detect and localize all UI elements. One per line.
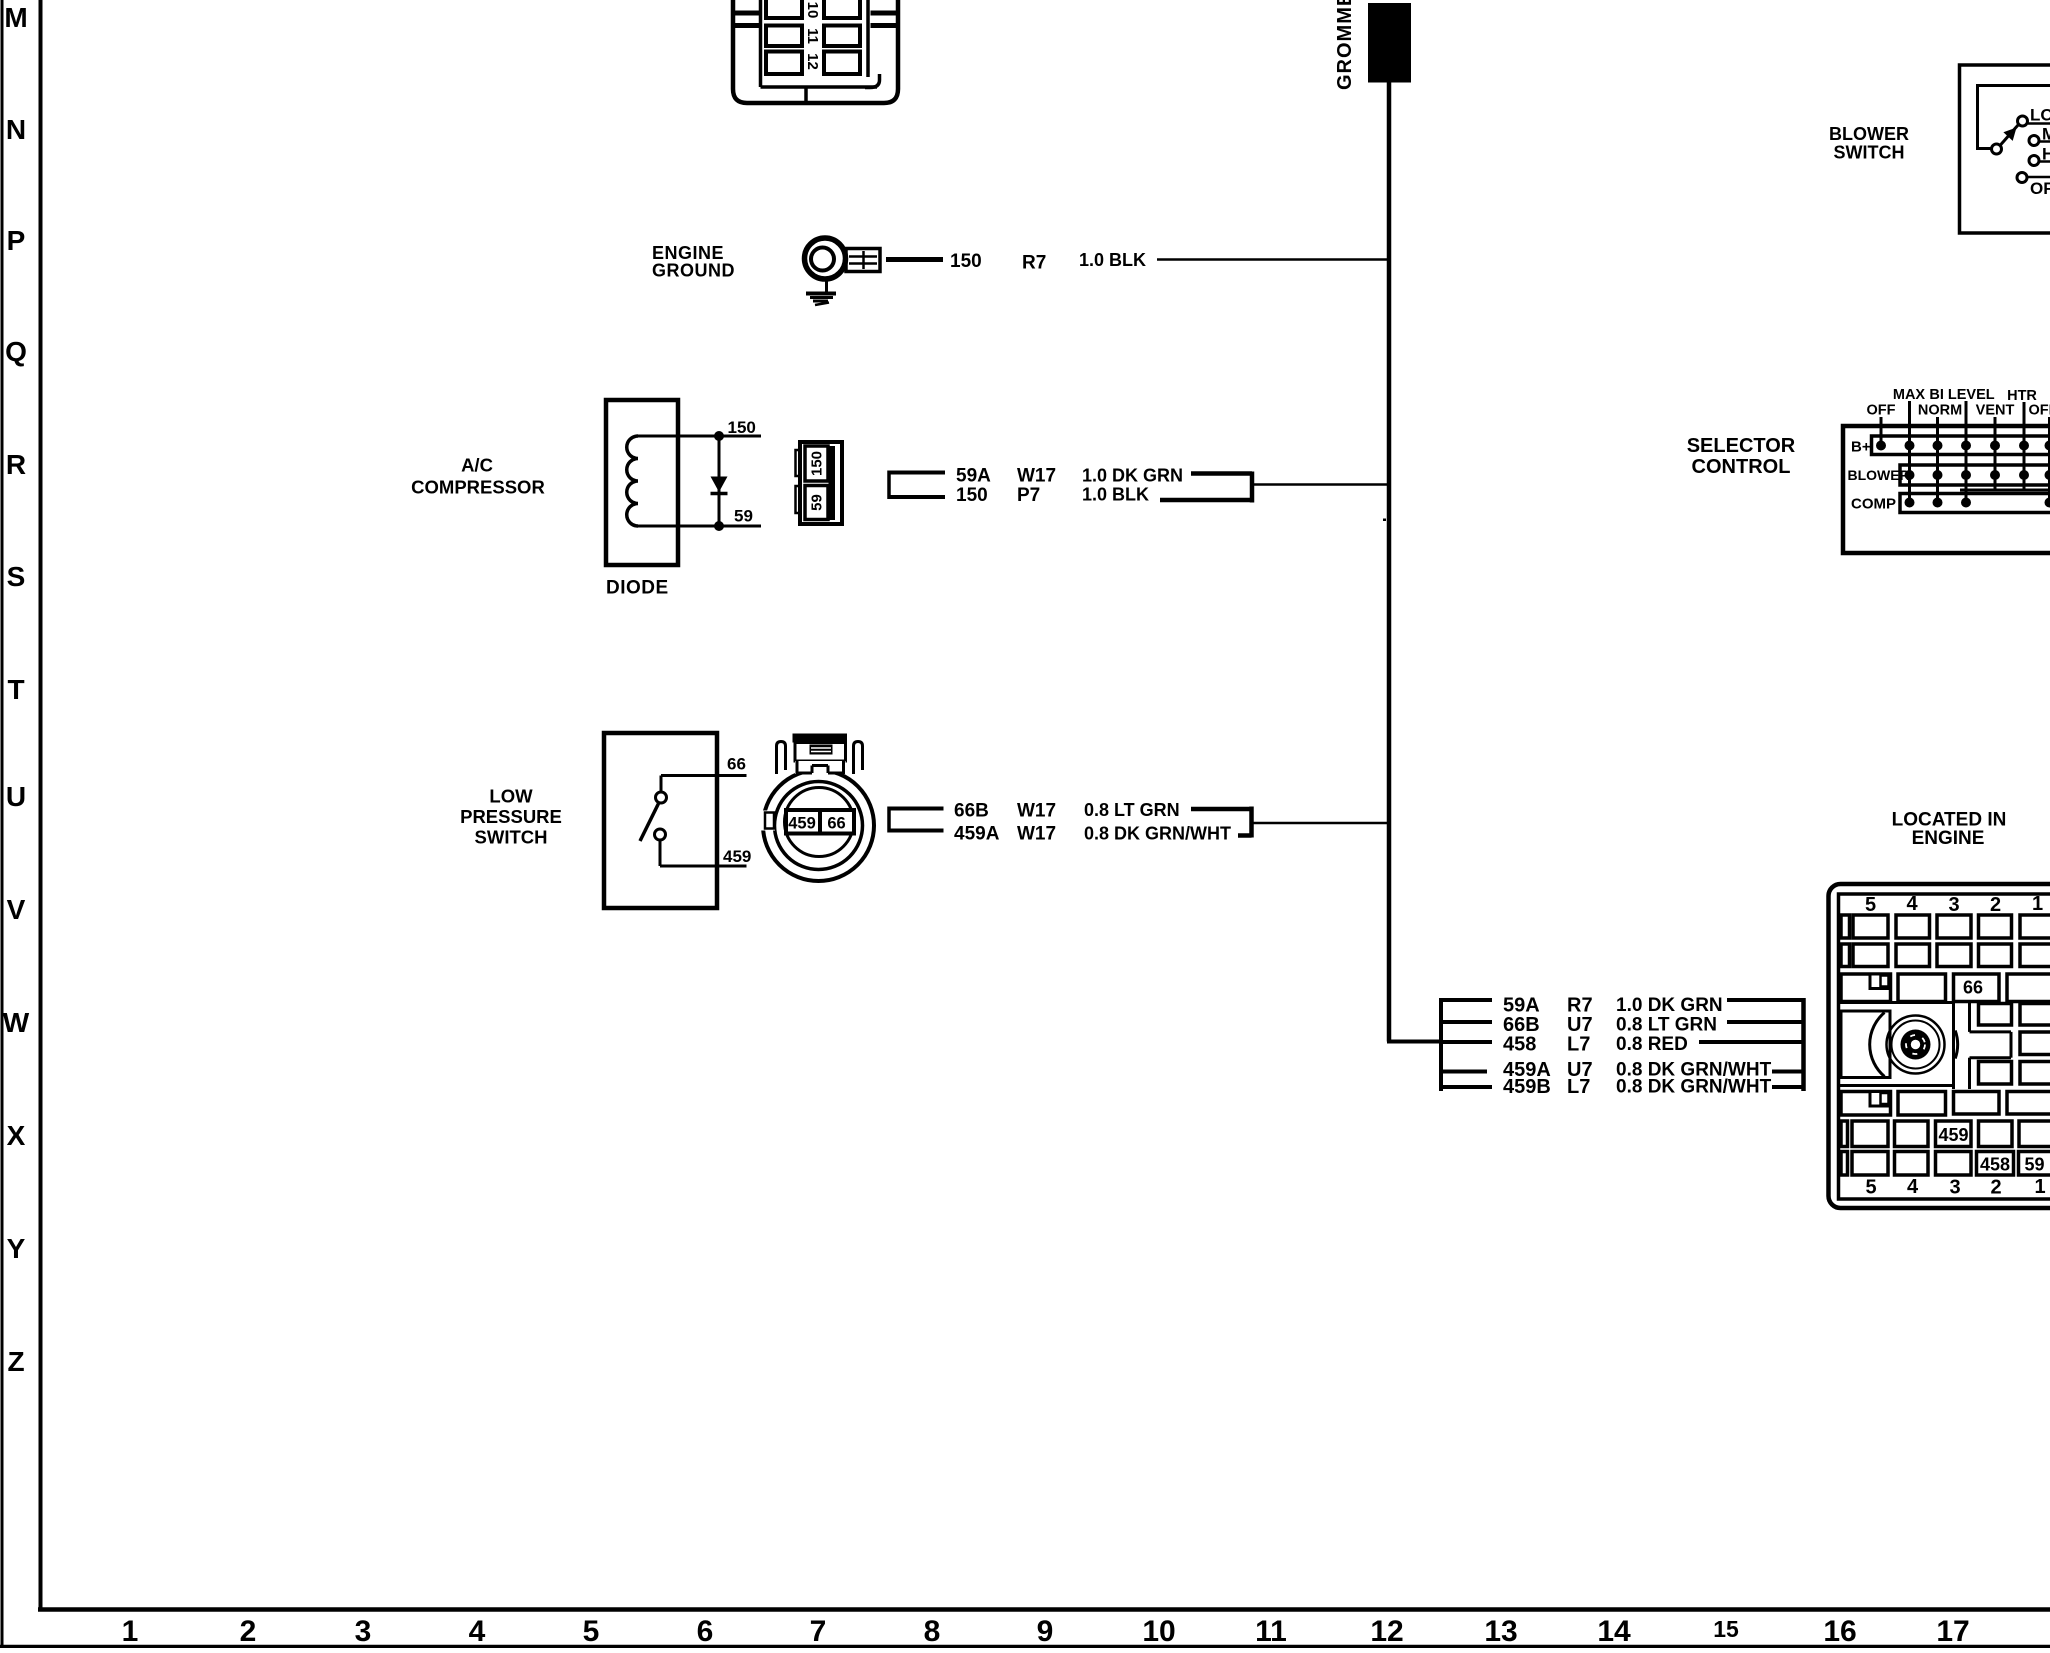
svg-text:66: 66 <box>727 755 746 774</box>
middle section walls <box>1839 1000 2012 1089</box>
svg-text:4: 4 <box>469 1615 486 1648</box>
svg-text:0.8 RED: 0.8 RED <box>1616 1034 1688 1055</box>
svg-text:W: W <box>3 1007 30 1038</box>
compressor connector (2-cavity) <box>796 442 843 524</box>
engine bulkhead connector outer border <box>1829 884 2050 1208</box>
svg-text:X: X <box>7 1120 26 1151</box>
svg-text:3: 3 <box>1949 1177 1960 1199</box>
svg-text:11: 11 <box>804 28 821 44</box>
wire 459 inside box <box>660 840 747 866</box>
jackscrew tower right arc <box>1955 1031 1957 1059</box>
keyway row 4 <box>1870 1092 1890 1107</box>
svg-text:59: 59 <box>2024 1155 2044 1175</box>
diode D1 <box>711 436 728 526</box>
junction bar (low pressure wires) <box>1249 807 1254 838</box>
svg-text:CONTROL: CONTROL <box>1692 456 1791 478</box>
svg-text:0.8 LT GRN: 0.8 LT GRN <box>1084 800 1180 820</box>
svg-text:1.0 BLK: 1.0 BLK <box>1079 250 1146 270</box>
ground symbol <box>806 279 836 305</box>
contact LO <box>2018 116 2028 126</box>
svg-text:59: 59 <box>809 494 826 511</box>
cavity row 4 <box>1841 1092 2050 1116</box>
svg-text:1.0 DK GRN: 1.0 DK GRN <box>1082 466 1183 486</box>
svg-text:59: 59 <box>734 507 753 526</box>
C100 latch hook <box>865 74 880 88</box>
svg-text:458: 458 <box>1980 1155 2010 1175</box>
connector yoke <box>795 761 846 774</box>
svg-text:SELECTOR: SELECTOR <box>1687 435 1796 457</box>
C100 inner bottom wall <box>761 85 878 89</box>
svg-text:BI LEVEL: BI LEVEL <box>1929 387 1994 403</box>
trunk tick <box>1383 519 1386 522</box>
contact MED <box>2029 136 2039 146</box>
blower switch inner box <box>1978 86 2050 149</box>
wire stub 59A <box>1441 998 1492 1002</box>
svg-text:3: 3 <box>355 1615 372 1648</box>
svg-text:Z: Z <box>7 1346 24 1377</box>
svg-text:S: S <box>7 561 26 592</box>
compressor clutch coil <box>627 436 638 526</box>
svg-text:3: 3 <box>1948 894 1959 916</box>
wire 66B to junction <box>1191 807 1252 812</box>
svg-text:15: 15 <box>1713 1616 1739 1642</box>
svg-text:W17: W17 <box>1017 466 1056 487</box>
wire stub 459B <box>1441 1085 1492 1089</box>
svg-text:459B: 459B <box>1503 1076 1551 1098</box>
svg-text:P: P <box>7 225 26 256</box>
svg-text:17: 17 <box>1936 1615 1969 1648</box>
svg-text:ENGINE: ENGINE <box>1912 828 1985 849</box>
frame bottom horizontal <box>38 1607 2050 1612</box>
C100 cavity 11 cells <box>766 26 802 47</box>
svg-text:459A: 459A <box>954 824 1000 845</box>
svg-text:L7: L7 <box>1567 1076 1590 1098</box>
contact HI <box>2029 156 2039 166</box>
blower switch common contact <box>1992 144 2002 154</box>
svg-text:SWITCH: SWITCH <box>475 827 548 848</box>
svg-text:5: 5 <box>1865 1177 1876 1199</box>
svg-text:458: 458 <box>1503 1034 1536 1056</box>
svg-text:59A: 59A <box>956 466 991 487</box>
connector top latch <box>793 734 848 743</box>
margin column numbers <box>122 1615 1970 1648</box>
connector C100 (top, partially cut) <box>733 0 898 103</box>
connector left notch <box>760 811 775 831</box>
engine bulkhead connector inner border <box>1839 894 2050 1199</box>
frame left vertical <box>39 0 43 1611</box>
svg-text:W17: W17 <box>1017 824 1056 845</box>
svg-text:P7: P7 <box>1017 485 1040 506</box>
svg-text:LOW: LOW <box>489 786 533 807</box>
jackscrew circles <box>1887 1016 1945 1074</box>
wire 458 to connector <box>1699 1040 1804 1044</box>
wiper arrowhead <box>2003 128 2016 141</box>
svg-text:4: 4 <box>1906 893 1918 915</box>
cavity row 5 (459 row) <box>1841 1121 2050 1147</box>
breakout labels column 3 <box>1616 995 1772 1098</box>
svg-text:459: 459 <box>788 815 816 833</box>
bottom cavity numbers <box>1865 1176 2045 1199</box>
svg-text:1: 1 <box>122 1615 139 1648</box>
svg-text:Q: Q <box>5 336 27 367</box>
ring terminal G100 <box>805 238 881 279</box>
C100 pin numbers 10 11 12 <box>804 2 821 70</box>
svg-text:150: 150 <box>956 485 988 506</box>
C100 cavity 10 cells <box>766 0 802 18</box>
selector column lines <box>1881 401 2050 503</box>
svg-text:M: M <box>4 2 27 33</box>
connector outer ring <box>763 770 874 881</box>
svg-text:DIODE: DIODE <box>606 578 669 599</box>
selector control box <box>1843 426 2050 553</box>
svg-text:4: 4 <box>1907 1176 1919 1198</box>
cavity row 2 <box>1841 944 2050 967</box>
svg-text:OFF: OFF <box>1867 403 1896 419</box>
blower switch wiper arm <box>2000 125 2019 146</box>
connector inner ring <box>785 788 854 857</box>
svg-text:459: 459 <box>1938 1125 1968 1145</box>
svg-text:7: 7 <box>810 1615 827 1648</box>
svg-text:PRESSURE: PRESSURE <box>460 806 562 827</box>
A/C compressor box <box>606 400 678 565</box>
svg-text:5: 5 <box>583 1615 600 1648</box>
bracket (low pressure wires) <box>889 807 944 833</box>
keyway row 3 <box>1870 974 1890 989</box>
svg-text:GROUND: GROUND <box>652 261 735 281</box>
svg-text:LO: LO <box>2030 106 2050 125</box>
svg-text:10: 10 <box>804 2 821 19</box>
svg-text:COMP: COMP <box>1851 496 1896 513</box>
junction bar (trunk breakout) <box>1439 998 1443 1091</box>
connector right ear <box>854 742 863 775</box>
svg-text:459: 459 <box>723 847 751 866</box>
cavity row 3 (66 row) <box>1841 974 2050 1002</box>
svg-text:0.8 LT GRN: 0.8 LT GRN <box>1616 1015 1717 1036</box>
svg-text:GROMMET: GROMMET <box>1334 0 1356 90</box>
svg-text:W17: W17 <box>1017 801 1056 822</box>
svg-text:VENT: VENT <box>1976 403 2015 419</box>
svg-text:6: 6 <box>697 1615 714 1648</box>
svg-text:13: 13 <box>1484 1615 1517 1648</box>
svg-text:V: V <box>7 894 26 925</box>
svg-text:66: 66 <box>827 815 845 833</box>
svg-text:150: 150 <box>950 251 982 272</box>
middle right cells <box>1979 1004 2050 1085</box>
wire 59A to junction <box>1191 471 1252 476</box>
C100 bottom key <box>804 87 808 103</box>
svg-text:1.0 DK GRN: 1.0 DK GRN <box>1616 995 1723 1016</box>
wire 66 inside box <box>661 776 747 793</box>
wire 59A to connector <box>1727 998 1804 1002</box>
selector contact dots <box>1876 441 2050 508</box>
svg-text:R: R <box>6 449 26 480</box>
wire stub 459A <box>1441 1070 1487 1074</box>
svg-text:1: 1 <box>2034 1176 2045 1198</box>
svg-text:0.8 DK GRN/WHT: 0.8 DK GRN/WHT <box>1616 1077 1772 1098</box>
trunk elbow to junction <box>1387 1040 1441 1044</box>
node 59 junction dot <box>714 521 724 531</box>
svg-text:1.0 BLK: 1.0 BLK <box>1082 485 1149 505</box>
wire 150 to junction <box>1160 498 1252 503</box>
sheet bottom edge <box>0 1645 2050 1649</box>
breakout labels column 2 <box>1567 995 1593 1099</box>
jackscrew tower left arc <box>1870 1013 1885 1077</box>
switch contact top <box>656 792 667 803</box>
grommet <box>1368 3 1411 83</box>
wire: main trunk <box>1387 83 1392 1042</box>
selector B+ band <box>1872 436 2050 455</box>
svg-text:MAX: MAX <box>1893 387 1926 403</box>
svg-text:14: 14 <box>1597 1615 1631 1648</box>
svg-text:150: 150 <box>809 451 826 476</box>
wire coil top to diode <box>638 435 761 438</box>
wire coil bottom to diode <box>638 525 761 528</box>
wire 459A to junction <box>1238 833 1252 838</box>
svg-text:OFF: OFF <box>2029 403 2050 419</box>
selector BLOWER band <box>1900 465 2050 485</box>
node 150 junction dot <box>714 431 724 441</box>
svg-text:2: 2 <box>1990 894 2001 916</box>
svg-text:11: 11 <box>1255 1615 1287 1648</box>
svg-text:2: 2 <box>240 1615 257 1648</box>
wire junction to trunk <box>1252 483 1387 486</box>
svg-text:8: 8 <box>924 1615 941 1648</box>
sheet left edge <box>1 0 4 1648</box>
low pressure switch box <box>604 733 717 908</box>
svg-text:1: 1 <box>2032 893 2043 915</box>
svg-text:U: U <box>6 781 26 812</box>
top cavity numbers <box>1865 893 2043 916</box>
svg-text:COMPRESSOR: COMPRESSOR <box>411 477 545 498</box>
svg-text:66: 66 <box>1963 978 1983 998</box>
wire 459A to connector <box>1772 1070 1804 1074</box>
svg-text:OFF: OFF <box>2030 179 2050 198</box>
wire to trunk (engine ground) <box>1157 258 1387 261</box>
wire stub 150 <box>886 257 943 262</box>
svg-text:R7: R7 <box>1022 253 1046 274</box>
svg-text:9: 9 <box>1037 1615 1054 1648</box>
svg-text:10: 10 <box>1142 1615 1175 1648</box>
C100 cavity 12 cells <box>766 52 802 75</box>
svg-text:2: 2 <box>1990 1177 2001 1199</box>
contact OFF <box>2017 173 2027 183</box>
wire 66B to connector <box>1727 1020 1804 1024</box>
wire stub 458 <box>1441 1040 1492 1044</box>
connector cavity band <box>786 810 854 834</box>
connector ring 2 <box>775 782 863 870</box>
wire 459B to connector <box>1772 1085 1804 1089</box>
svg-text:N: N <box>6 114 26 145</box>
svg-text:12: 12 <box>1370 1615 1403 1648</box>
breakout labels column 1 <box>1503 995 1551 1099</box>
svg-text:B+: B+ <box>1851 439 1871 456</box>
svg-text:L7: L7 <box>1567 1034 1590 1056</box>
svg-text:5: 5 <box>1865 894 1876 916</box>
svg-text:A/C: A/C <box>461 455 493 476</box>
switch blade <box>640 804 659 842</box>
wire stub 66B <box>1441 1020 1492 1024</box>
svg-text:NORM: NORM <box>1918 403 1962 419</box>
wire junction to trunk <box>1252 822 1388 825</box>
selector position labels <box>1867 387 2050 419</box>
svg-text:16: 16 <box>1823 1615 1856 1648</box>
svg-text:Y: Y <box>7 1233 26 1264</box>
svg-text:12: 12 <box>804 53 821 70</box>
connector left ear <box>777 742 786 775</box>
cavity row 6 (458 / 59 row) <box>1841 1152 2050 1176</box>
cavity row 1 <box>1841 915 2050 938</box>
bracket (compressor wires) <box>889 471 945 500</box>
svg-text:SWITCH: SWITCH <box>1834 143 1905 163</box>
svg-text:BLOWER: BLOWER <box>1829 124 1909 144</box>
junction bar (connector side) <box>1801 998 1806 1091</box>
svg-text:66B: 66B <box>954 801 989 822</box>
svg-text:T: T <box>7 674 24 705</box>
blower switch box <box>1960 65 2050 233</box>
margin row letters <box>3 2 30 1377</box>
junction bar (compressor wires) <box>1250 472 1255 503</box>
selector COMP band <box>1900 494 2050 513</box>
svg-text:150: 150 <box>728 418 756 437</box>
switch contact bottom <box>655 829 666 840</box>
low pressure switch connector (face view) <box>760 734 874 882</box>
svg-text:0.8 DK GRN/WHT: 0.8 DK GRN/WHT <box>1084 824 1231 844</box>
